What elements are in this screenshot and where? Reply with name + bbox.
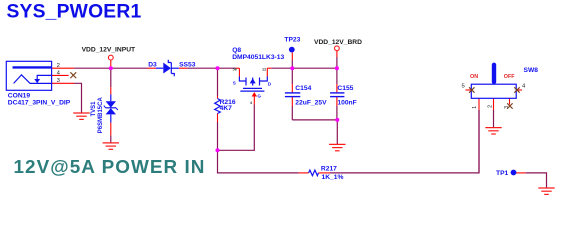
svg-text:VDD_12V_INPUT: VDD_12V_INPUT: [82, 47, 136, 54]
svg-text:4K7: 4K7: [220, 105, 233, 112]
svg-text:R217: R217: [321, 166, 337, 173]
svg-text:G: G: [257, 93, 261, 98]
svg-text:2: 2: [488, 105, 494, 108]
svg-text:100nF: 100nF: [337, 100, 356, 107]
svg-text:DC417_3PIN_V_DIP: DC417_3PIN_V_DIP: [8, 99, 71, 106]
svg-text:TP1: TP1: [496, 170, 509, 177]
svg-text:S: S: [233, 81, 236, 86]
svg-text:DMP4051LK3-13: DMP4051LK3-13: [232, 54, 284, 61]
svg-text:12: 12: [262, 68, 266, 72]
svg-text:SW8: SW8: [524, 67, 539, 74]
svg-text:56: 56: [233, 67, 237, 71]
svg-text:ON: ON: [470, 74, 478, 80]
svg-text:22uF_25V: 22uF_25V: [295, 100, 327, 107]
svg-text:SYS_PWOER1: SYS_PWOER1: [7, 2, 142, 23]
svg-text:5: 5: [462, 84, 466, 90]
svg-text:4: 4: [522, 84, 526, 90]
svg-text:12V@5A POWER IN: 12V@5A POWER IN: [14, 157, 206, 178]
svg-text:1: 1: [472, 106, 478, 109]
svg-text:SS53: SS53: [179, 62, 196, 69]
svg-text:VDD_12V_BRD: VDD_12V_BRD: [314, 39, 362, 46]
svg-text:P6SMB15CA: P6SMB15CA: [98, 97, 104, 134]
svg-text:C154: C154: [295, 85, 311, 92]
svg-text:4: 4: [250, 101, 253, 105]
svg-text:3: 3: [504, 106, 510, 109]
svg-text:C155: C155: [337, 85, 353, 92]
svg-text:TP23: TP23: [284, 37, 300, 44]
svg-text:D3: D3: [148, 62, 157, 69]
svg-text:2: 2: [57, 63, 60, 69]
svg-text:TVS1: TVS1: [91, 101, 97, 117]
svg-text:D: D: [268, 82, 272, 87]
svg-text:1K_1%: 1K_1%: [322, 174, 344, 181]
svg-text:OFF: OFF: [504, 74, 515, 80]
